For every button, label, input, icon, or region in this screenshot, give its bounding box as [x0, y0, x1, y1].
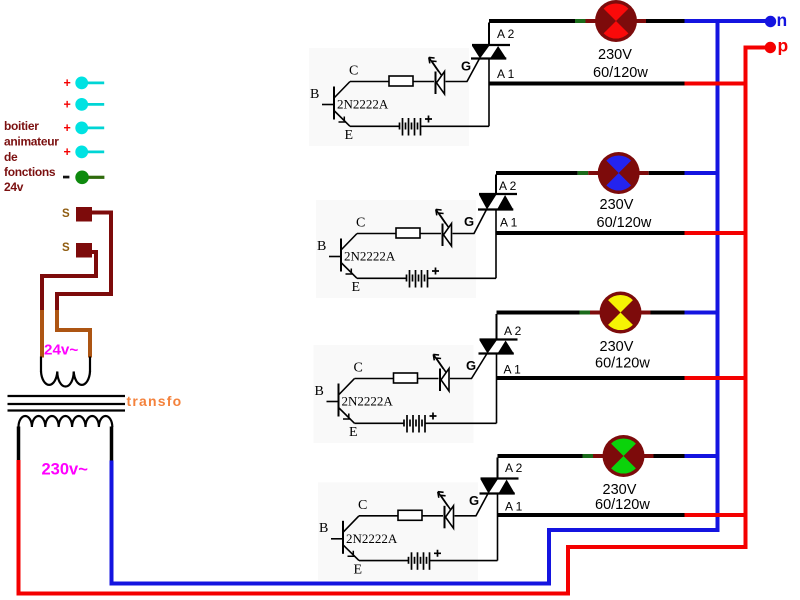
230v winding lead right (black): [110, 427, 114, 463]
svg-text:S: S: [62, 208, 70, 220]
green lead segment left of lamp ch3: [580, 311, 591, 315]
emitter wire ch3: [355, 422, 404, 424]
triac lower lead to battery wire ch4: [497, 494, 499, 561]
opto LED ch2: emission arrow 2: [439, 213, 449, 227]
blue neutral link ch3: [685, 311, 720, 315]
maroon lead into lamp ch2: [588, 171, 601, 175]
gate wire diagonal ch3: [472, 354, 488, 379]
A1 wire (thick, bottom) ch1: [489, 82, 685, 86]
output terminal dot 2 (cyan): [75, 98, 88, 111]
triac lower lead to battery wire ch2: [495, 210, 497, 279]
red phase link ch3: [685, 376, 748, 380]
blue neutral link ch4: [685, 454, 720, 458]
maroon lead into lamp ch1: [586, 19, 599, 23]
svg-text:G: G: [469, 493, 479, 508]
svg-text:A 2: A 2: [499, 179, 517, 193]
triac ch3: upper triangle: [479, 340, 497, 353]
opto LED ch1: emission arrow 2: [432, 61, 442, 75]
svg-text:+: +: [64, 145, 71, 159]
transistor Q3 2N2222A: base lead: [327, 401, 339, 403]
svg-text:A 1: A 1: [504, 363, 522, 377]
emitter wire ch1: [350, 125, 399, 127]
triac ch1: bottom bar (A1 side): [471, 57, 506, 59]
wire stub from terminal 1: [88, 82, 105, 85]
transistor Q1: collector stroke: [335, 82, 351, 98]
A2 wire (thick, triac to lamp) ch4: [498, 454, 583, 458]
svg-text:B: B: [310, 87, 319, 102]
opto LED ch4: cathode bar: [444, 506, 446, 529]
output terminal dot 3 (cyan): [75, 122, 88, 135]
terminal n dot: [765, 16, 776, 27]
wire resistor to LED ch1: [413, 81, 434, 83]
battery plus sign ch1: [425, 116, 432, 123]
opto LED ch1: cathode bar: [435, 72, 437, 95]
svg-text:230V: 230V: [600, 339, 634, 355]
resistor ch4: [398, 510, 422, 520]
transistor Q3: base bar: [338, 384, 340, 417]
blue neutral link to terminal n ch1: [685, 19, 769, 23]
triac ch4: lower triangle: [499, 480, 515, 494]
opto LED ch1: emission arrow 1: [429, 57, 439, 71]
battery ch2: [407, 270, 428, 288]
maroon lead into lamp ch3: [590, 311, 603, 315]
wire LED to gate ch2: [453, 233, 475, 235]
triac lower lead to battery wire ch3: [496, 354, 498, 424]
red phase link ch2: [685, 231, 748, 235]
maroon lead out of lamp ch1: [634, 19, 646, 23]
svg-text:C: C: [358, 498, 367, 513]
triac ch2: upper triangle: [479, 195, 497, 210]
svg-text:G: G: [461, 59, 471, 74]
triac ch2: lower triangle: [497, 195, 513, 210]
wire from S1 to 24v winding (maroon part): [57, 213, 111, 313]
opto LED ch2: triangle: [444, 224, 452, 247]
battery ch3: [404, 415, 425, 433]
svg-text:C: C: [354, 361, 363, 376]
battery wire to triac lead ch4: [430, 560, 498, 562]
svg-text:C: C: [349, 64, 358, 79]
resistor ch1: [389, 76, 413, 86]
blue neutral link ch2: [685, 171, 720, 175]
wire LED to gate ch3: [450, 378, 472, 380]
battery plus sign ch3: [430, 413, 437, 420]
svg-text:60/120w: 60/120w: [595, 356, 650, 372]
transistor Q1: emitter arrow: [339, 117, 347, 123]
opto LED ch4: emission arrow 1: [438, 492, 448, 506]
red phase link ch1: [685, 82, 748, 86]
svg-text:24v~: 24v~: [44, 341, 78, 358]
wire from S1 to 24v winding (brown part): [57, 310, 90, 358]
svg-text:boitier: boitier: [4, 119, 39, 133]
transistor Q2: emitter arrow: [346, 269, 354, 275]
maroon lead out of lamp ch3: [639, 311, 651, 315]
triac ch2: bottom bar (A1 side): [478, 208, 513, 210]
svg-text:B: B: [317, 239, 326, 254]
wire stub from terminal 3: [88, 127, 105, 130]
gate wire diagonal ch1: [467, 59, 480, 82]
svg-text:E: E: [354, 562, 363, 577]
svg-text:A 2: A 2: [504, 324, 522, 338]
battery wire to triac lead ch1: [421, 125, 489, 127]
svg-text:A 2: A 2: [497, 27, 515, 41]
A1 wire (thick, bottom) ch2: [496, 231, 685, 235]
resistor ch3: [394, 373, 418, 383]
24v winding lead right: [89, 357, 91, 373]
collector wire ch4: [359, 515, 398, 517]
transistor Q1: base bar: [333, 87, 335, 120]
svg-text:2N2222A: 2N2222A: [337, 97, 389, 112]
24v winding lead left: [40, 357, 42, 373]
battery wire to triac lead ch3: [426, 422, 497, 424]
A2 wire (thick, triac to lamp) ch2: [496, 171, 578, 175]
opto LED ch3: triangle: [441, 369, 449, 392]
boitier animateur de fonctions 24v label: [4, 119, 59, 194]
transistor Q4 2N2222A: base lead: [331, 538, 343, 540]
transistor Q4: emitter arrow: [348, 551, 356, 557]
svg-text:fonctions: fonctions: [4, 165, 56, 179]
battery wire to triac lead ch2: [428, 277, 496, 279]
svg-text:60/120w: 60/120w: [593, 65, 648, 81]
triac ch3: bottom bar (A1 side): [479, 352, 514, 354]
opto LED ch2: emission arrow 1: [436, 209, 446, 223]
lamp bulb ch1 (230V 60/120w): [595, 0, 637, 42]
opto LED ch3: emission arrow 2: [436, 358, 446, 372]
wire resistor to LED ch4: [422, 515, 443, 517]
A2 wire right of lamp ch2: [649, 171, 685, 175]
wire stub from terminal 2: [88, 103, 105, 106]
wire LED to gate ch1: [446, 81, 468, 83]
opto LED ch3: cathode bar: [439, 369, 441, 392]
svg-text:S: S: [62, 242, 70, 254]
triac vertical lead ch4: [497, 458, 499, 479]
svg-text:E: E: [352, 280, 361, 295]
transistor Q4: base bar: [342, 521, 344, 554]
battery ch1: [400, 118, 421, 136]
triac ch1: upper triangle: [472, 46, 490, 59]
green lead segment left of lamp ch4: [583, 454, 594, 458]
wire resistor to LED ch3: [418, 378, 439, 380]
A2 wire (thick, triac to lamp) ch3: [497, 311, 580, 315]
opto LED ch4: emission arrow 2: [441, 495, 451, 509]
wire from S2 to 24v winding (brown part): [40, 310, 44, 358]
svg-text:230v~: 230v~: [42, 460, 89, 478]
transistor Q4: emitter stroke: [344, 545, 360, 560]
230v winding lead left (black): [17, 427, 21, 462]
A1 wire (thick, bottom) ch4: [498, 513, 685, 517]
triac ch1: top bar (A2 side): [472, 44, 510, 46]
driver block background ch3: [314, 345, 474, 443]
collector wire ch1: [350, 81, 389, 83]
svg-text:+: +: [64, 76, 71, 90]
maroon lead out of lamp ch4: [642, 454, 654, 458]
lamp bulb ch3 (230V 60/120w): [600, 292, 642, 334]
collector wire ch3: [355, 378, 394, 380]
svg-text:+: +: [64, 98, 71, 112]
svg-text:E: E: [349, 425, 358, 440]
resistor ch2: [396, 228, 420, 238]
opto LED ch4: triangle: [446, 506, 454, 529]
svg-text:+: +: [64, 121, 71, 135]
common terminal dot (green): [75, 171, 89, 185]
triac ch4: upper triangle: [480, 479, 498, 493]
neutral wire (blue) from 230v winding: right lead down: [112, 22, 718, 584]
svg-text:230V: 230V: [603, 482, 637, 498]
lamp bulb ch2 (230V 60/120w): [598, 152, 640, 194]
battery ch4: [409, 552, 430, 570]
maroon lead out of lamp ch2: [637, 171, 649, 175]
svg-text:p: p: [778, 36, 789, 56]
triac ch1: lower triangle: [490, 46, 506, 59]
svg-text:transfo: transfo: [127, 393, 183, 409]
svg-text:A 2: A 2: [505, 461, 523, 475]
battery plus sign ch4: [434, 550, 441, 557]
transistor Q3: emitter arrow: [343, 414, 351, 420]
output terminal dot 4 (cyan): [75, 146, 88, 159]
svg-text:G: G: [466, 358, 476, 373]
svg-text:n: n: [777, 10, 788, 30]
transformer primary winding (24v): [41, 372, 90, 387]
green lead segment left of lamp ch1: [575, 19, 586, 23]
collector wire ch2: [357, 233, 396, 235]
wire from S2 to 24v winding (maroon part): [42, 252, 96, 312]
triac ch3: lower triangle: [498, 341, 514, 354]
triac ch4: bottom bar (A1 side): [480, 492, 515, 494]
svg-text:de: de: [4, 150, 18, 164]
svg-text:E: E: [345, 128, 354, 143]
transistor Q2: collector stroke: [342, 234, 358, 250]
wire stub from green terminal: [89, 176, 105, 179]
transistor Q3: emitter stroke: [339, 408, 355, 423]
wire resistor to LED ch2: [420, 233, 441, 235]
triac lower lead to battery wire ch1: [488, 59, 490, 127]
svg-text:G: G: [464, 214, 474, 229]
switch square S1: [76, 207, 92, 222]
opto LED ch2: cathode bar: [442, 224, 444, 247]
svg-text:A 1: A 1: [500, 216, 518, 230]
transistor Q2: emitter stroke: [342, 263, 358, 278]
battery plus sign ch2: [432, 268, 439, 275]
A2 wire right of lamp ch3: [651, 311, 685, 315]
opto LED ch1: triangle: [437, 72, 445, 95]
svg-text:B: B: [319, 521, 328, 536]
minus terminal marker: [63, 176, 69, 179]
maroon lead into lamp ch4: [593, 454, 606, 458]
svg-text:2N2222A: 2N2222A: [346, 531, 398, 546]
wire LED to gate ch4: [455, 515, 477, 517]
emitter wire ch4: [359, 560, 408, 562]
triac vertical lead ch1: [488, 23, 490, 46]
A1 wire (thick, bottom) ch3: [497, 376, 685, 380]
driver block background ch4: [318, 482, 478, 580]
svg-text:2N2222A: 2N2222A: [342, 394, 394, 409]
svg-text:animateur: animateur: [4, 135, 59, 149]
svg-text:2N2222A: 2N2222A: [344, 249, 396, 264]
opto LED ch3: emission arrow 1: [433, 354, 443, 368]
transistor Q4: collector stroke: [344, 516, 360, 532]
green lead segment left of lamp ch2: [578, 171, 589, 175]
gate wire diagonal ch4: [476, 494, 488, 516]
svg-text:B: B: [315, 384, 324, 399]
wire stub from terminal 4: [88, 150, 105, 153]
svg-text:230V: 230V: [598, 47, 632, 63]
triac vertical lead ch3: [496, 314, 498, 340]
transistor Q2: base bar: [340, 239, 342, 272]
A2 wire right of lamp ch4: [654, 454, 685, 458]
driver block background ch2: [316, 200, 476, 298]
triac ch4: top bar (A2 side): [481, 477, 519, 479]
driver block background ch1: [309, 48, 469, 146]
svg-text:A 1: A 1: [505, 500, 523, 514]
svg-text:A 1: A 1: [497, 67, 515, 81]
lamp bulb ch4 (230V 60/120w): [603, 435, 645, 477]
svg-text:60/120w: 60/120w: [597, 215, 652, 231]
triac ch3: top bar (A2 side): [480, 338, 518, 340]
triac ch2: top bar (A2 side): [479, 193, 517, 195]
transistor Q1: emitter stroke: [335, 111, 351, 126]
terminal p dot: [765, 42, 776, 53]
svg-text:230V: 230V: [600, 197, 634, 213]
terminal p lead: [746, 48, 770, 50]
svg-text:C: C: [356, 216, 365, 231]
svg-text:60/120w: 60/120w: [595, 497, 650, 513]
emitter wire ch2: [357, 277, 406, 279]
transistor Q3: collector stroke: [339, 379, 355, 395]
transformer secondary winding (230v): [19, 416, 113, 427]
transformer core: [8, 396, 126, 411]
transistor Q2 2N2222A: base lead: [329, 256, 341, 258]
svg-text:24v: 24v: [4, 180, 24, 194]
output terminal dot 1 (cyan): [75, 77, 88, 90]
triac vertical lead ch2: [495, 175, 497, 195]
transistor Q1 2N2222A: base lead: [322, 104, 334, 106]
A2 wire (thick, triac to lamp) ch1: [489, 19, 575, 23]
switch square S2: [76, 243, 92, 258]
red phase link ch4: [685, 513, 748, 517]
A2 wire right of lamp ch1: [646, 19, 685, 23]
gate wire diagonal ch2: [474, 210, 487, 234]
